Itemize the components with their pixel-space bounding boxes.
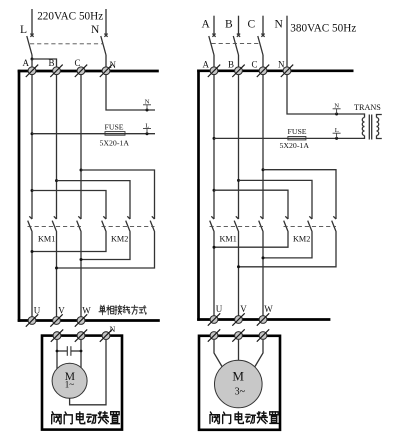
fuse F2 body (288, 137, 306, 140)
node C branch dot (80, 169, 83, 172)
right border wire (197, 70, 200, 321)
box terminal U (208, 329, 220, 341)
wire pole1 to U (31, 232, 33, 317)
capacitor C1 plates (66, 346, 68, 356)
wire A crossover to pole4 (32, 191, 106, 220)
svg-text:KM1: KM1 (38, 235, 55, 244)
contactor KM2 pole 4 (102, 216, 107, 232)
node B branch dot (55, 179, 58, 182)
switch S1 pole N (101, 34, 108, 55)
terminal U (208, 313, 220, 325)
wire N drop (286, 16, 288, 67)
wire A drop (213, 16, 215, 34)
svg-text:5X20-1A: 5X20-1A (280, 141, 310, 150)
terminal C (75, 65, 87, 77)
fuse F1 body (105, 132, 125, 136)
svg-text:220VAC 50Hz: 220VAC 50Hz (37, 11, 103, 23)
wire pole2 to V (56, 232, 58, 317)
wire fuse line to transformer (214, 136, 365, 139)
wire C crossover to pole6 (263, 170, 336, 219)
node merge1 dot (213, 246, 216, 249)
wire L blade to node (31, 55, 33, 59)
bus top (18, 70, 159, 73)
terminal A (26, 65, 38, 77)
svg-text:L: L (20, 24, 27, 36)
switch S2 linkage dashed (212, 43, 261, 45)
wire secondary bottom lead (377, 136, 382, 139)
svg-text:C: C (75, 58, 81, 68)
box terminal V (51, 329, 63, 341)
KM2 linkage dashed (284, 226, 337, 228)
transformer T1 secondary coil (377, 118, 379, 136)
terminal N (100, 65, 112, 77)
box terminal V (232, 329, 244, 341)
contactor KM2 pole 4 (284, 216, 289, 232)
wire L to A (31, 59, 33, 67)
wire W lead (80, 340, 82, 368)
switch S2 pole C (258, 34, 265, 55)
svg-text:N: N (145, 99, 150, 106)
contactor KM2 pole 5 (126, 216, 131, 232)
svg-text:1~: 1~ (65, 380, 75, 390)
wire phase A column (31, 75, 33, 219)
svg-text:KM2: KM2 (293, 235, 310, 244)
wire C crossover to pole6 (81, 170, 155, 219)
label 阀门电动装置 (left) (52, 411, 120, 423)
wire motor return to N (70, 340, 106, 405)
terminal W (257, 313, 269, 325)
wire secondary top lead (377, 115, 382, 118)
svg-text:B: B (228, 60, 234, 70)
svg-text:N: N (110, 60, 117, 70)
svg-text:B: B (225, 19, 233, 31)
contactor KM2 pole 6 (150, 216, 155, 232)
wire B crossover to pole5 (57, 181, 131, 219)
svg-text:W: W (264, 304, 273, 314)
wire phase B column (56, 75, 58, 219)
wire V lead (56, 340, 58, 369)
node B branch dot (237, 179, 240, 182)
svg-text:U: U (34, 306, 41, 316)
net flag L (143, 129, 151, 134)
switch S2 pole A (209, 34, 216, 55)
wire N drop (105, 9, 107, 34)
label 单相接线方式 (99, 305, 146, 315)
wire W lead (255, 340, 263, 367)
node merge3 dot (237, 265, 240, 268)
capacitor C1 branch (57, 350, 67, 352)
wire B blade to terminal (238, 55, 240, 67)
contactor KM1 pole 3 (77, 216, 82, 232)
motor box M1 (42, 336, 122, 430)
left border wire (18, 70, 21, 322)
KM1 linkage dashed (210, 226, 264, 228)
switch S1 linkage dashed (30, 43, 104, 45)
terminal C (257, 65, 269, 77)
transformer T1 primary coil (362, 118, 364, 136)
switch S1 pole L (27, 34, 34, 55)
wire pole2 to V (238, 232, 240, 316)
node L tap dot (335, 137, 338, 140)
terminal B (232, 65, 244, 77)
svg-text:A: A (203, 60, 210, 70)
wire pole3 to W (262, 232, 264, 316)
contactor KM1 pole 2 (52, 216, 57, 232)
wire N column (106, 75, 155, 110)
label 阀门电动装置 (right) (210, 412, 278, 424)
node merge1 dot (31, 250, 34, 253)
terminal W (75, 314, 87, 326)
svg-text:A: A (202, 19, 211, 31)
node A fuse tap dot (213, 137, 216, 140)
wire fuse line (32, 133, 155, 135)
svg-text:V: V (58, 306, 65, 316)
svg-text:U: U (216, 304, 223, 314)
svg-text:V: V (240, 304, 247, 314)
svg-text:B: B (49, 58, 55, 68)
wire pole4 merge (214, 232, 288, 247)
wire C blade to terminal (262, 55, 264, 67)
node A branch dot (31, 189, 34, 192)
wire phase B column (238, 75, 240, 219)
contactor KM1 pole 3 (259, 216, 264, 232)
wire A blade to terminal (213, 55, 215, 67)
box terminal W (257, 329, 269, 341)
bus bottom (18, 319, 160, 322)
svg-text:3~: 3~ (235, 386, 246, 397)
terminal U (26, 314, 38, 326)
wire phase A column (213, 75, 215, 219)
contactor KM1 pole 1 (28, 216, 33, 232)
wire pole6 merge (239, 232, 337, 267)
wire N to terminal (105, 55, 107, 67)
net flag N (333, 109, 341, 114)
wire B drop (238, 16, 240, 34)
motor box M2 (199, 336, 280, 430)
wire N column to transformer (287, 75, 365, 118)
net flag N (143, 105, 151, 110)
KM2 linkage dashed (102, 226, 155, 228)
svg-text:380VAC 50Hz: 380VAC 50Hz (290, 23, 356, 35)
node cap right dot (80, 350, 83, 353)
net flag L (333, 133, 341, 138)
svg-text:M: M (232, 369, 244, 384)
wire C drop (262, 16, 264, 34)
wire pole4 merge (32, 232, 106, 252)
svg-text:KM1: KM1 (220, 235, 237, 244)
wire pole1 to U (213, 232, 215, 316)
node merge3 dot (55, 267, 58, 270)
svg-text:5X20-1A: 5X20-1A (100, 138, 130, 147)
node merge2 dot (262, 256, 265, 259)
svg-text:N: N (334, 103, 339, 110)
terminal A (208, 65, 220, 77)
svg-text:N: N (275, 19, 284, 31)
node L tap dot (146, 132, 149, 135)
node N tap dot (335, 113, 338, 116)
svg-text:KM2: KM2 (111, 235, 128, 244)
node L fuse tap dot (31, 132, 34, 135)
wire phase C column (262, 75, 264, 219)
node merge2 dot (80, 258, 83, 261)
wire pole5 merge (263, 232, 312, 258)
svg-text:TRANS: TRANS (354, 103, 381, 112)
wire phase C column (80, 75, 82, 219)
terminal B (50, 65, 62, 77)
wire V lead (238, 340, 240, 361)
wire pole3 to W (80, 232, 82, 317)
svg-text:L: L (145, 122, 149, 129)
svg-text:A: A (23, 58, 30, 68)
bus top right (197, 69, 353, 72)
svg-text:N: N (91, 24, 100, 36)
motor M1 circle (52, 363, 87, 398)
wire pole5 merge (81, 232, 130, 260)
motor M2 circle (215, 360, 263, 408)
terminal V (232, 313, 244, 325)
contactor KM1 pole 2 (234, 216, 239, 232)
wire A crossover to pole4 (214, 190, 288, 219)
node N tap dot (146, 109, 149, 112)
terminal N (281, 65, 293, 77)
wire pole6 merge (57, 232, 155, 268)
wire B crossover to pole5 (239, 180, 313, 219)
svg-text:FUSE: FUSE (105, 122, 124, 131)
svg-text:C: C (252, 60, 258, 70)
transformer T1 core (368, 115, 370, 140)
contactor KM2 pole 5 (308, 216, 313, 232)
node cap left dot (56, 350, 59, 353)
svg-text:N: N (278, 60, 285, 70)
svg-text:L: L (335, 127, 339, 134)
box terminal W (75, 329, 87, 341)
KM1 linkage dashed (28, 226, 82, 228)
contactor KM1 pole 1 (210, 216, 215, 232)
svg-text:W: W (82, 306, 91, 316)
contactor KM2 pole 6 (332, 216, 337, 232)
bus bottom right (197, 318, 330, 321)
wire U lead (214, 340, 222, 367)
svg-text:N: N (110, 325, 116, 334)
terminal V (50, 314, 62, 326)
switch S2 pole B (233, 34, 240, 55)
node C branch dot (262, 168, 265, 171)
node L junction dot (31, 58, 34, 61)
wire L drop (31, 9, 33, 34)
svg-text:FUSE: FUSE (288, 127, 307, 136)
node A branch dot (213, 189, 216, 192)
box terminal N (100, 329, 112, 341)
wire L to B (32, 59, 57, 67)
svg-text:C: C (248, 19, 256, 31)
